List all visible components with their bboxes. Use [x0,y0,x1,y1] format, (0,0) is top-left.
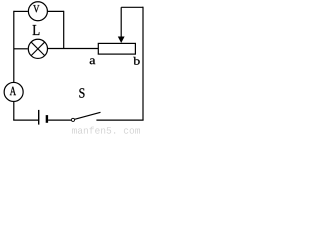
switch label S [79,88,84,97]
wire top-left horizontal (battery+ to voltmeter left) [14,10,28,12]
battery long plate (positive) [38,110,40,125]
rheostat wiper stem [120,7,122,37]
lamp L circle [28,39,47,58]
switch pivot circle [71,118,74,121]
rheostat R body [98,43,135,54]
wire voltmeter branch vertical down [63,11,65,49]
wire left vertical lower segment [13,102,15,120]
wire wiper top horizontal [121,6,143,8]
voltmeter U-V circle [28,2,47,21]
lamp cross diagonal 2 [31,42,45,56]
watermark manfen5.com [72,127,140,134]
ammeter label A [10,87,16,95]
wire lamp left [14,48,28,50]
wire lamp right to rheostat [48,48,98,50]
rheostat terminal label a [90,58,96,64]
voltmeter label V [33,5,39,12]
lamp label L [33,25,40,35]
wire bottom left to battery [13,119,38,121]
wire left vertical upper segment [13,11,15,82]
wire battery to switch [48,119,71,121]
wire voltmeter right to corner [48,10,64,12]
ammeter circle [4,82,23,101]
wire bottom right segment [96,119,143,121]
switch lever [75,112,101,119]
lamp cross diagonal 1 [31,42,45,56]
rheostat wiper arrowhead [118,37,125,44]
rheostat terminal label b [133,57,139,65]
battery short plate (negative) [46,115,48,123]
wire right vertical [142,7,144,120]
